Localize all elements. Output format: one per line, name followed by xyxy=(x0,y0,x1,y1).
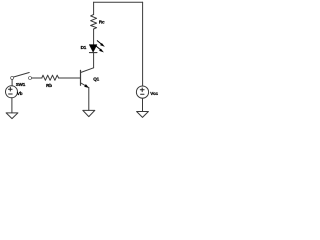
voltage source Vb xyxy=(6,86,18,98)
wire right branch xyxy=(142,2,144,86)
svg-text:Vb: Vb xyxy=(17,91,23,96)
svg-text:Rc: Rc xyxy=(99,19,105,24)
wire SW1 to Vb xyxy=(11,80,13,86)
wire Vb to ground xyxy=(11,98,13,113)
transistor Q1 xyxy=(81,68,94,111)
switch SW1 xyxy=(11,73,32,80)
svg-text:Vcc: Vcc xyxy=(150,91,158,96)
ground (Vcc) xyxy=(137,112,149,118)
wire Rc to D1 xyxy=(93,29,95,45)
wire base xyxy=(59,77,81,79)
LED D1 xyxy=(89,41,104,53)
wire top rail xyxy=(94,1,143,3)
wire Rb to SW1 xyxy=(32,77,42,79)
ground (Vb) xyxy=(6,113,18,119)
ground (emitter) xyxy=(83,110,95,116)
wire Vcc to ground xyxy=(142,98,144,111)
svg-text:D1: D1 xyxy=(81,45,87,50)
wire D1 to Q1 collector xyxy=(93,53,95,68)
svg-text:Q1: Q1 xyxy=(93,76,99,81)
svg-text:Rb: Rb xyxy=(46,83,52,88)
wire left branch top xyxy=(93,2,95,14)
svg-text:SW1: SW1 xyxy=(16,82,26,87)
resistor Rc xyxy=(91,15,97,30)
voltage source Vcc xyxy=(136,86,148,98)
resistor Rb xyxy=(42,75,59,80)
